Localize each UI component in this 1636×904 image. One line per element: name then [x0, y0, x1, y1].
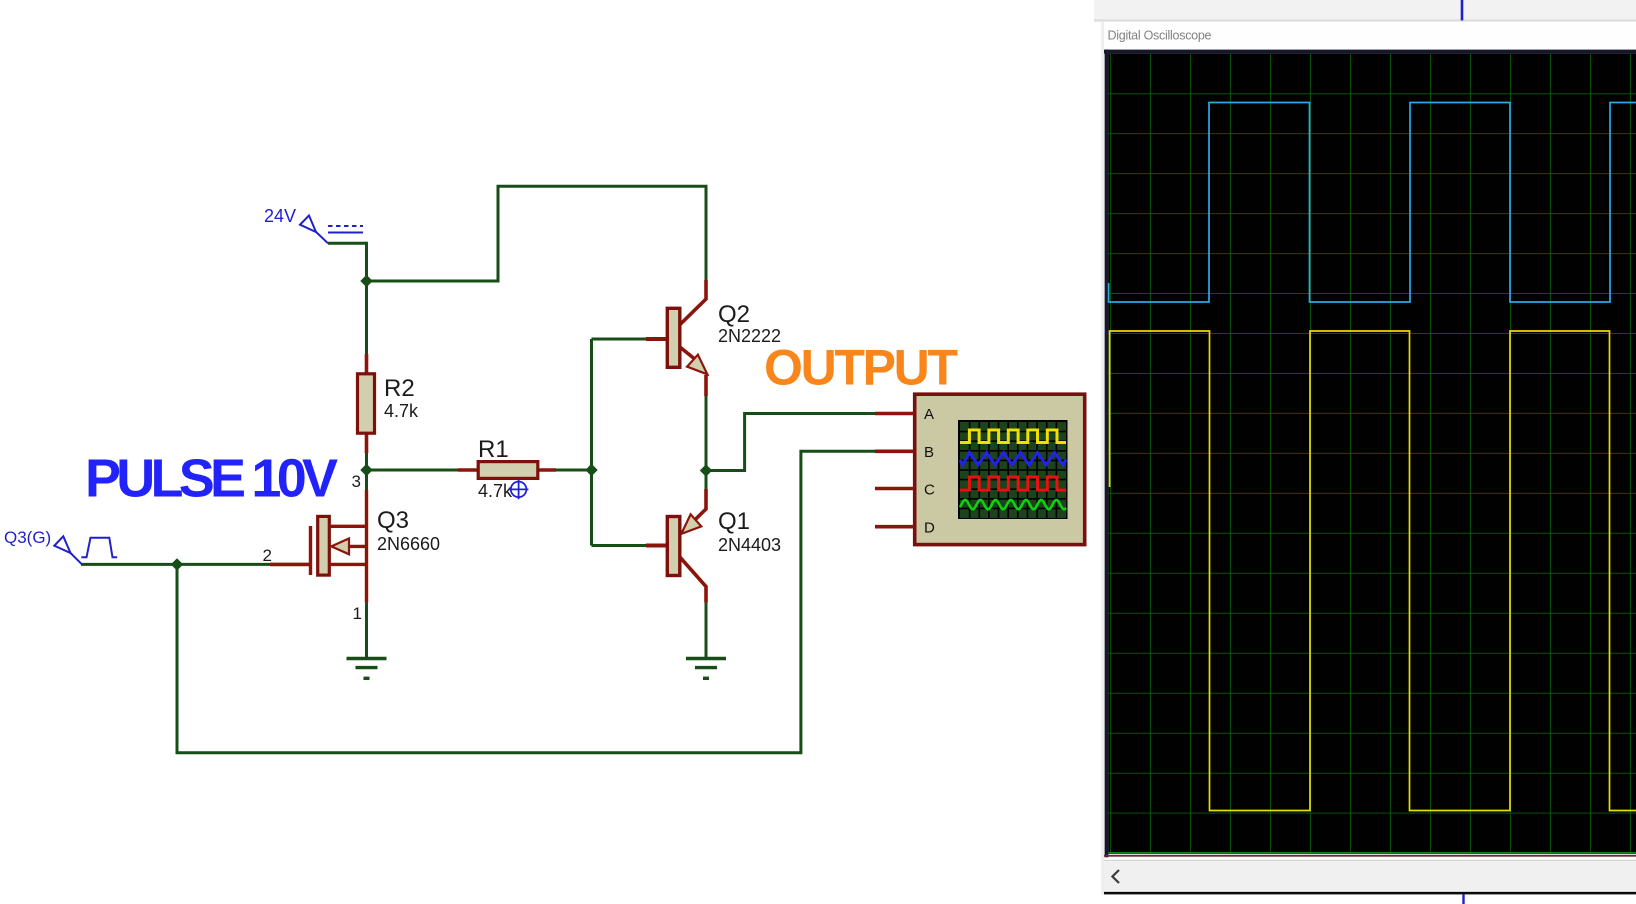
mini trace green: [960, 500, 1066, 509]
svg-text:D: D: [924, 520, 935, 537]
wire R1 to base bus: [556, 469, 592, 472]
transistor Q1: [646, 489, 706, 603]
wire base bus vertical: [590, 339, 593, 546]
power symbol 24V: [300, 216, 363, 244]
svg-text:OUTPUT: OUTPUT: [764, 340, 958, 396]
junction base bus: [585, 464, 597, 476]
wire node 3 to Q3 drain: [365, 470, 368, 490]
svg-text:1: 1: [353, 604, 362, 623]
svg-text:R2: R2: [384, 375, 415, 402]
svg-text:4.7k: 4.7k: [384, 401, 419, 421]
wire R2 to node 3: [365, 453, 368, 470]
wire Q1 base: [592, 544, 647, 547]
svg-text:R1: R1: [478, 436, 509, 463]
junction rail: [360, 275, 372, 287]
wire behind window bottom: [1462, 894, 1464, 904]
transistor Q3: [270, 490, 367, 603]
scope mini screen: [958, 420, 1068, 519]
scrollbar left arrow: [1112, 870, 1119, 883]
mini trace blue: [960, 453, 1066, 466]
scope pin D: [875, 525, 914, 529]
node 3 junction: [360, 464, 372, 476]
svg-text:3: 3: [352, 472, 361, 491]
wire Q2 emitter to output node: [705, 396, 708, 471]
transistor Q2: [646, 280, 707, 396]
wire behind window top: [1461, 0, 1464, 20]
plot grid: [1108, 53, 1636, 853]
output node junction: [700, 464, 712, 476]
scope pin C: [875, 487, 914, 491]
svg-text:24V: 24V: [264, 206, 296, 226]
scrollbar: [1104, 857, 1636, 891]
window bottom edge: [1104, 892, 1636, 895]
ground Q3: [347, 659, 387, 679]
resistor R1: [458, 462, 556, 479]
svg-text:A: A: [924, 406, 934, 423]
svg-text:Q2: Q2: [718, 301, 750, 328]
oscilloscope component U1: [915, 394, 1085, 544]
input junction: [171, 558, 183, 570]
svg-text:2N4403: 2N4403: [718, 535, 781, 555]
wire 24V to rail: [328, 242, 367, 245]
wire node 3 to R1: [367, 469, 459, 472]
generator symbol Q3(G): [54, 536, 117, 564]
plot bottom maroon line: [1104, 855, 1636, 857]
svg-text:2N6660: 2N6660: [377, 534, 440, 554]
wire output node to scope A: [706, 414, 875, 471]
wire output node to Q1 emitter: [705, 471, 708, 490]
trace yellow channel: [1110, 331, 1636, 811]
svg-text:Q3: Q3: [377, 507, 409, 534]
scope pin A: [875, 412, 914, 416]
plot area: [1108, 54, 1636, 854]
svg-text:PULSE 10V: PULSE 10V: [85, 449, 338, 509]
svg-text:C: C: [924, 482, 935, 499]
wire Q2 base: [592, 338, 647, 341]
wire input loop to scope B: [177, 451, 875, 752]
trace blue channel: [1109, 103, 1636, 303]
wire Q3 source to ground: [365, 603, 368, 657]
resistor R2: [358, 354, 375, 453]
window left shadow: [1101, 22, 1104, 895]
svg-text:4.7k: 4.7k: [478, 481, 513, 501]
plot frame: [1104, 50, 1636, 858]
svg-text:Q1: Q1: [718, 508, 750, 535]
svg-text:B: B: [924, 444, 934, 461]
mini trace red: [960, 477, 1066, 490]
scope pin B: [875, 449, 914, 453]
plot bottom bright gridline: [1108, 852, 1636, 854]
wire input: [81, 563, 270, 566]
ground Q1: [686, 659, 726, 679]
mini trace yellow: [960, 430, 1066, 443]
svg-text:Digital Oscilloscope: Digital Oscilloscope: [1108, 29, 1212, 43]
svg-text:Q3(G): Q3(G): [4, 528, 51, 547]
wire rail to Q2 collector: [367, 186, 707, 281]
window titlebar: [1104, 22, 1636, 50]
wire rail vertical to R2: [365, 242, 368, 354]
oscilloscope window top band: [1094, 0, 1636, 20]
wire Q1 collector to ground: [705, 603, 708, 657]
origin marker on R1: [509, 480, 529, 500]
svg-text:2: 2: [263, 546, 272, 565]
